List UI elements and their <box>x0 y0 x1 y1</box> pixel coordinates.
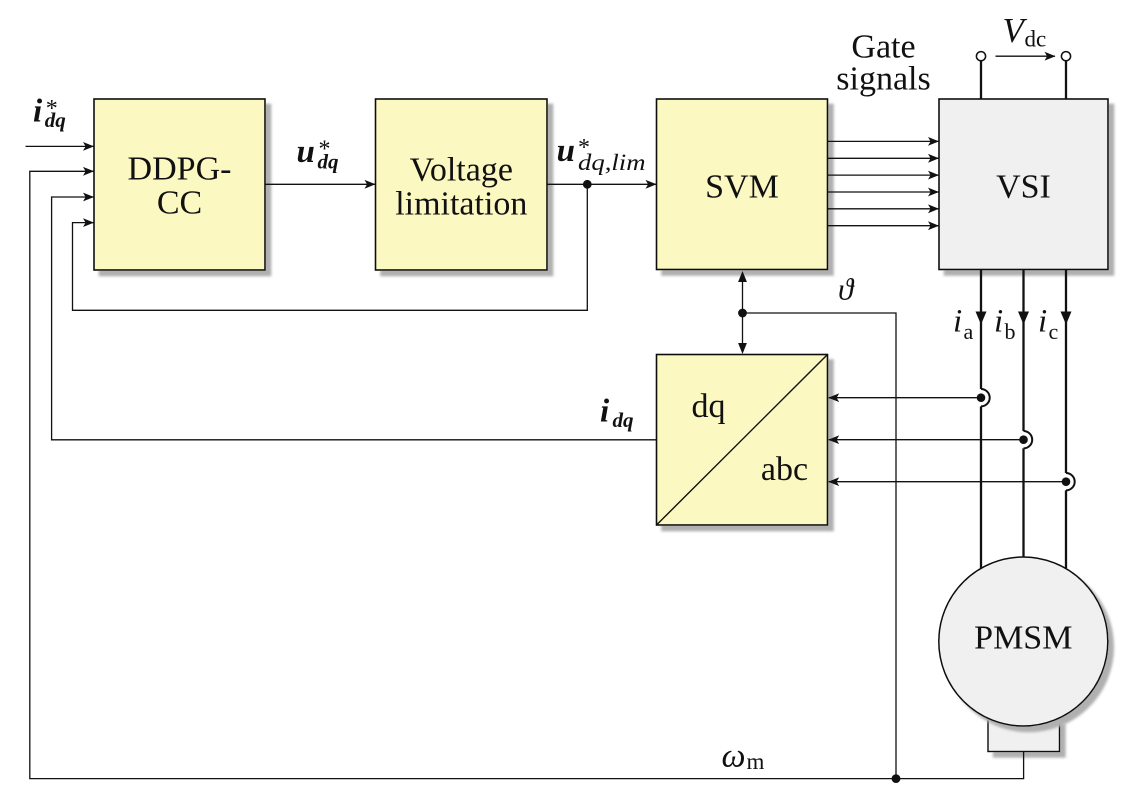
wire feedback omega_m to DDPG-CC input 2 <box>30 171 1024 778</box>
svg-text:dq: dq <box>45 108 66 132</box>
block VSI <box>939 99 1108 270</box>
gate signal wire 2 <box>828 157 939 159</box>
current sensor b dot <box>1019 435 1028 444</box>
diagonal of dq/abc <box>657 355 827 525</box>
encoder box on PMSM <box>988 719 1060 752</box>
svg-text:ϑ: ϑ <box>838 272 855 307</box>
svg-text:i: i <box>994 304 1003 340</box>
wire theta to omega junction <box>743 313 897 779</box>
phase wire a <box>980 270 982 569</box>
label Gate signals <box>836 28 930 97</box>
svg-text:i: i <box>600 393 610 429</box>
current sensor a dot <box>977 393 986 402</box>
svg-text:limitation: limitation <box>395 186 527 223</box>
svg-text:dq: dq <box>692 388 726 425</box>
current sensor c dot <box>1062 477 1071 486</box>
label DDPG-CC <box>128 150 232 221</box>
svg-text:a: a <box>964 319 974 344</box>
wire theta double arrow SVM to dq/abc <box>742 274 744 351</box>
junction dot theta <box>738 309 747 318</box>
phase c arrowhead <box>1061 312 1072 325</box>
svg-text:i: i <box>33 94 43 130</box>
wire dc stub left <box>980 61 982 99</box>
svg-text:ω: ω <box>722 738 746 775</box>
gate signal wire 1 <box>828 140 939 142</box>
svg-text:DDPG-: DDPG- <box>128 150 232 187</box>
junction dot u*dq,lim <box>583 180 592 189</box>
svg-text:b: b <box>1005 319 1016 344</box>
dc link terminal right <box>1061 52 1070 61</box>
svg-text:CC: CC <box>157 185 202 222</box>
junction dot omega wire <box>892 774 901 783</box>
gate signal wire 3 <box>828 174 939 176</box>
phase b arrowhead <box>1018 312 1029 325</box>
label Voltage limitation <box>395 151 527 222</box>
block Voltage limitation <box>376 99 548 270</box>
wire sensor c to dq/abc <box>829 481 1066 483</box>
block SVM <box>657 99 828 270</box>
svg-text:dc: dc <box>1025 27 1047 52</box>
wire i*dq reference input <box>26 145 94 147</box>
wire sensor b to dq/abc <box>829 439 1024 441</box>
dc link terminal left <box>976 52 985 61</box>
wire u*dq from DDPG-CC to Voltage limitation <box>265 183 375 185</box>
svg-text:i: i <box>1038 304 1047 340</box>
wire sensor a to dq/abc <box>829 397 981 399</box>
gate signal wire 6 <box>828 225 939 227</box>
current sensor c hop <box>1066 473 1075 490</box>
block dq/abc transform <box>657 355 828 526</box>
svg-text:dq: dq <box>613 408 634 432</box>
svg-text:abc: abc <box>761 451 808 488</box>
svg-text:Voltage: Voltage <box>410 151 513 188</box>
svg-text:u: u <box>557 133 575 169</box>
gate signal wire 5 <box>828 208 939 210</box>
svg-text:i: i <box>953 304 962 340</box>
wire feedback i_dq to DDPG-CC input 3 <box>52 197 657 440</box>
wire feedback u*dq,lim to DDPG-CC input 4 <box>73 184 588 310</box>
svg-text:PMSM: PMSM <box>974 620 1072 657</box>
svg-text:dq,lim: dq,lim <box>578 150 646 175</box>
gate signal wire 4 <box>828 191 939 193</box>
arrow Vdc <box>996 55 1056 57</box>
phase wire c <box>1065 270 1067 569</box>
svg-text:VSI: VSI <box>996 169 1051 206</box>
wire u*dq,lim from Voltage limitation to SVM <box>547 183 656 185</box>
svg-text:SVM: SVM <box>705 169 779 206</box>
svg-text:u: u <box>297 134 315 170</box>
svg-text:dq: dq <box>318 150 339 174</box>
phase wire b <box>1022 270 1024 558</box>
svg-text:c: c <box>1049 319 1059 344</box>
svg-text:m: m <box>747 749 765 774</box>
current sensor b hop <box>1024 431 1033 448</box>
machine PMSM <box>939 557 1108 726</box>
svg-text:signals: signals <box>836 60 930 97</box>
wire dc stub right <box>1065 61 1067 99</box>
phase a arrowhead <box>976 312 987 325</box>
current sensor a hop <box>981 389 990 406</box>
block DDPG-CC <box>94 99 265 270</box>
